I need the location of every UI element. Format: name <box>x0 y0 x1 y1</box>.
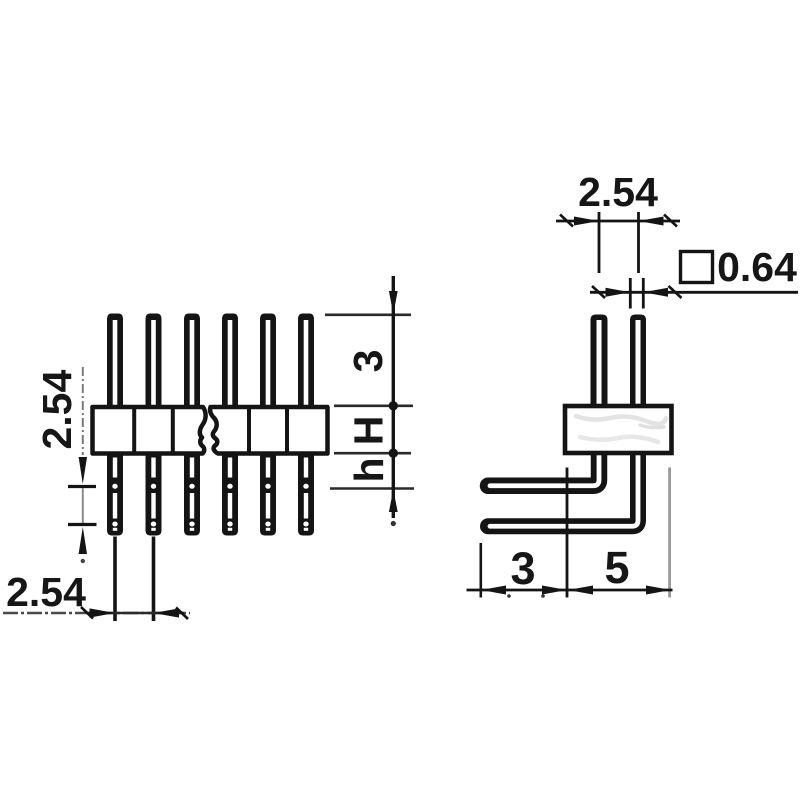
arrow left-pointing (3, at pin tip line) <box>481 586 506 595</box>
fletch marks top 2.54 <box>560 215 573 227</box>
svg-text:2.54: 2.54 <box>578 169 658 215</box>
svg-text:3: 3 <box>510 543 535 594</box>
top 2.54 arrow right-pointing <box>574 217 599 226</box>
bottom pitch arrow left-pointing <box>154 608 180 617</box>
lower pin tail P2 <box>146 450 162 536</box>
svg-text:5: 5 <box>604 542 629 593</box>
square symbol of 0.64 <box>681 252 713 283</box>
0.64 extension line (pin right edge) <box>642 278 645 309</box>
upper pin P1 <box>107 314 123 411</box>
faint scan texture inside body <box>576 416 666 424</box>
extension line from pin P2 center (bottom pitch dim) <box>152 537 156 622</box>
body cell divider 2 <box>171 407 175 454</box>
svg-text:h: h <box>346 457 392 482</box>
chain dot at body top <box>389 401 398 410</box>
arrow left-pointing (5, at body left line) <box>568 586 593 595</box>
extension line at body bottom <box>334 452 411 455</box>
extension tick lower (left 2.54 dim) <box>68 523 97 526</box>
upper pin P6 <box>298 314 314 411</box>
bottom 3/5 dimension line <box>467 589 673 592</box>
extension line at pin shoulder (h) <box>330 487 414 490</box>
gray extension line of body right edge <box>668 468 671 598</box>
arrow fletch marks bottom-left <box>81 607 93 619</box>
bottom pitch arrow right-pointing <box>90 608 116 617</box>
chain dot at body bottom <box>389 449 398 458</box>
back upper pin (side view) <box>630 315 646 411</box>
down arrow of left 2.54 dimension <box>79 457 87 484</box>
lower pin tail P4 <box>222 450 238 536</box>
svg-text:2.54: 2.54 <box>6 569 86 615</box>
extension line from pin P1 center (bottom pitch dim) <box>113 537 117 622</box>
top 2.54 arrow left-pointing <box>639 217 664 226</box>
extension line of body left edge (down to 3/5 dim) <box>566 468 569 598</box>
back right-angle pin (bends into lower bar) <box>488 448 638 526</box>
0.64 extension line (pin left edge) <box>629 278 632 309</box>
chain up arrow at h line <box>389 490 398 513</box>
trailing dot of chain dimension <box>391 521 396 526</box>
top 2.54 extension line (front pin center) <box>598 212 601 273</box>
0.64 dimension line <box>590 291 798 294</box>
extension tick upper (left 2.54 dim) <box>68 485 96 488</box>
body cell divider 3 <box>247 407 251 454</box>
body cell divider 4 <box>285 407 289 454</box>
lower pin tail P1 <box>107 450 123 536</box>
up arrow of left 2.54 dimension <box>79 527 87 554</box>
svg-text:H: H <box>346 416 392 446</box>
upper pin P2 <box>146 314 162 411</box>
upper pin P5 <box>260 314 276 411</box>
arrow right-pointing (3, at body left line) <box>542 586 567 595</box>
front upper pin (side view) <box>591 315 608 411</box>
lower pin tail P5 <box>260 450 276 536</box>
chain down arrow at pin-top line <box>389 291 398 314</box>
extension line at body top <box>334 404 413 407</box>
right chain dimension: extension line at pin tops <box>325 313 411 316</box>
lower pin tail P6 <box>298 450 314 536</box>
top 2.54 extension line (back pin center) <box>637 212 640 273</box>
upper pin P3 <box>184 314 200 411</box>
insulator body right section (with wavy break edge) <box>210 407 327 454</box>
top 2.54 dimension line <box>556 220 680 223</box>
dash line between ticks <box>82 488 84 523</box>
upper pin P4 <box>222 314 238 411</box>
bottom pitch dimension line <box>3 612 190 614</box>
body cell divider 1 <box>132 407 136 454</box>
svg-text:3: 3 <box>345 350 391 373</box>
solid span between extension lines <box>88 612 184 614</box>
lower pin tail P3 <box>184 450 200 536</box>
fletch marks 0.64 <box>592 286 605 298</box>
0.64 arrow left-pointing <box>643 288 668 297</box>
right chain vertical dimension line <box>392 276 395 518</box>
0.64 arrow right-pointing <box>606 288 631 297</box>
left vertical dash-dot dimension line for 2.54 body height <box>82 367 84 455</box>
insulator body (side view) <box>565 406 672 453</box>
svg-text:2.54: 2.54 <box>34 370 80 450</box>
svg-text:0.64: 0.64 <box>717 244 797 290</box>
extension line of pin tip (left end of bars) <box>479 543 482 598</box>
arrow right-pointing (5, at body right line) <box>646 586 671 595</box>
insulator body left section (with wavy break edge) <box>93 407 206 454</box>
fletch dots of bottom arrows <box>507 594 511 598</box>
front right-angle pin (bends into upper bar) <box>488 448 599 486</box>
trailing dot of left dimension <box>81 559 85 563</box>
